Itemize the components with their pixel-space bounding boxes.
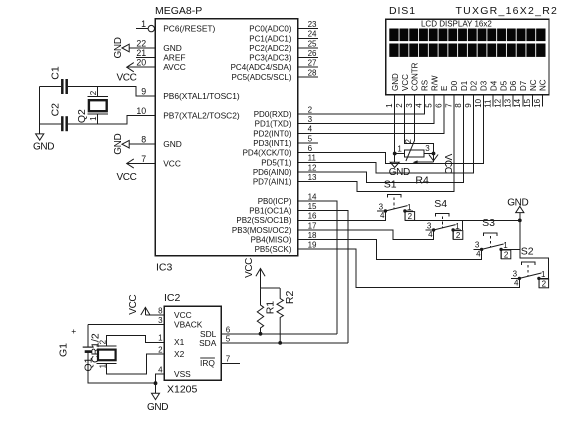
svg-text:3: 3 <box>379 202 384 211</box>
wire PB2 pin16 to S1 pin 4 <box>298 211 386 220</box>
svg-text:25: 25 <box>308 39 317 48</box>
svg-text:16: 16 <box>308 212 317 221</box>
svg-text:27: 27 <box>308 59 317 68</box>
svg-text:PD2(INT0): PD2(INT0) <box>253 129 292 138</box>
wire Q1 top to IC2 X1 <box>107 336 165 346</box>
svg-text:14: 14 <box>513 98 522 107</box>
IC3 right pin numbers <box>308 20 317 250</box>
resistor R1 <box>257 288 276 334</box>
svg-text:PC5(ADC5/SCL): PC5(ADC5/SCL) <box>231 73 291 82</box>
svg-text:D4: D4 <box>489 80 498 91</box>
svg-text:3: 3 <box>475 241 480 250</box>
svg-text:PD1(TXD): PD1(TXD) <box>255 120 292 129</box>
IC3 pin 1 PC6(/RESET) <box>136 19 215 34</box>
svg-text:1: 1 <box>141 19 146 29</box>
svg-text:9: 9 <box>464 103 473 108</box>
svg-text:NC: NC <box>529 79 538 91</box>
wire PB4 pin18 to S3 pin 4 <box>298 240 482 260</box>
wire PD4 pin6 to LCD D3 <box>298 95 484 164</box>
svg-text:PC3(ADC3): PC3(ADC3) <box>249 54 292 63</box>
svg-text:15: 15 <box>308 202 317 211</box>
svg-text:6: 6 <box>308 144 313 153</box>
svg-text:2: 2 <box>404 139 413 144</box>
svg-text:12: 12 <box>308 163 317 172</box>
svg-text:3: 3 <box>158 316 163 325</box>
svg-text:AVCC: AVCC <box>163 62 186 72</box>
svg-text:1: 1 <box>385 103 394 108</box>
svg-text:VBACK: VBACK <box>174 320 203 330</box>
wire SDA net IC2 pin5 to PB1 <box>221 342 347 344</box>
svg-text:SDA: SDA <box>199 338 217 348</box>
switch S1 <box>377 179 415 221</box>
svg-text:11: 11 <box>308 154 317 163</box>
svg-text:VCC: VCC <box>401 74 410 91</box>
svg-text:11: 11 <box>484 99 493 108</box>
wire GND rail to S2 pin1 <box>520 213 549 279</box>
IC2 pin numbers <box>158 306 231 374</box>
svg-text:LCD DISPLAY 16x2: LCD DISPLAY 16x2 <box>421 19 492 28</box>
svg-text:C2: C2 <box>49 103 61 117</box>
junction R4.3/VCC/LCD2 <box>432 152 436 156</box>
svg-text:13: 13 <box>503 98 512 107</box>
svg-text:4: 4 <box>308 125 313 134</box>
VCC supply arrow at IC2 pin 8 <box>128 295 150 315</box>
wire PD7 pin13 to LCD D0 <box>298 95 454 192</box>
wire R1/R2 top bridge <box>261 287 281 289</box>
IC3 MEGA8-P body <box>155 5 298 274</box>
ground symbol at IC3 pin 22 <box>113 37 129 58</box>
IC3 pin 7 VCC <box>127 154 181 169</box>
svg-text:PB5(SCK): PB5(SCK) <box>255 245 292 254</box>
svg-text:VSS: VSS <box>174 369 191 379</box>
svg-text:IC3: IC3 <box>156 262 173 274</box>
svg-text:20: 20 <box>136 58 146 68</box>
svg-text:26: 26 <box>308 49 317 58</box>
wire PB3 pin17 to S4 pin 4 <box>298 230 434 240</box>
ground symbol above switch rail <box>507 198 528 213</box>
svg-text:19: 19 <box>308 241 317 250</box>
ground symbol at IC3 pin 8 <box>113 133 129 154</box>
svg-text:CR1/2: CR1/2 <box>90 333 102 363</box>
svg-text:16: 16 <box>533 98 542 107</box>
wire PB1 pin15 to SDA <box>298 211 348 343</box>
svg-text:PC2(ADC2): PC2(ADC2) <box>249 44 292 53</box>
svg-text:18: 18 <box>308 231 317 240</box>
svg-text:PB6(XTAL1/TOSC1): PB6(XTAL1/TOSC1) <box>163 91 240 101</box>
IC3 pin 20 AVCC <box>127 58 186 73</box>
junction GND rail / switch wire <box>518 219 522 223</box>
svg-text:S4: S4 <box>434 198 447 210</box>
svg-text:2: 2 <box>308 105 313 114</box>
svg-text:VCC: VCC <box>163 159 181 169</box>
svg-text:8: 8 <box>141 135 146 145</box>
svg-text:PB1(OC1A): PB1(OC1A) <box>249 207 292 216</box>
IC2 pin 7 IRQ stub (unconnected) <box>221 362 240 364</box>
ground symbol below IC2 <box>147 393 168 413</box>
IC3 pin 9 PB6 <box>141 87 240 102</box>
svg-text:2: 2 <box>408 212 413 221</box>
svg-text:VCC: VCC <box>117 72 137 83</box>
svg-text:14: 14 <box>308 192 317 201</box>
svg-text:1: 1 <box>455 222 460 231</box>
svg-text:2: 2 <box>98 339 107 344</box>
trimmer R4 <box>395 139 434 187</box>
svg-text:VCC: VCC <box>128 295 139 315</box>
svg-text:7: 7 <box>141 154 146 164</box>
wire PB5 pin19 to S2 pin 4 <box>298 249 520 287</box>
IC2 X1205 body <box>164 292 221 396</box>
svg-text:5: 5 <box>308 134 313 143</box>
LCD display DIS1 TUXGR_16X2_R2 <box>386 5 559 95</box>
svg-text:X2: X2 <box>174 349 185 359</box>
svg-text:3: 3 <box>405 103 414 108</box>
svg-text:4: 4 <box>514 278 519 287</box>
svg-text:GND: GND <box>113 133 124 154</box>
svg-text:CONTR: CONTR <box>411 62 420 91</box>
svg-text:3: 3 <box>308 115 313 124</box>
svg-text:1: 1 <box>158 334 163 343</box>
svg-text:S1: S1 <box>384 179 397 191</box>
wire S3 pin1 to GND rail <box>501 248 520 250</box>
svg-text:2: 2 <box>395 103 404 108</box>
svg-text:GND: GND <box>391 73 400 91</box>
wire Q1 bottom to IC2 X2 <box>107 354 165 374</box>
svg-text:9: 9 <box>141 87 146 97</box>
svg-text:GND: GND <box>147 402 168 413</box>
IC3 pin 10 PB7 <box>136 106 239 121</box>
svg-text:4: 4 <box>158 365 163 374</box>
wire battery to IC2 VBACK pin 3 <box>88 324 164 326</box>
LCD pin stubs 1-16 <box>395 95 543 115</box>
switch S4 <box>425 198 463 240</box>
svg-text:23: 23 <box>308 20 317 29</box>
svg-text:C1: C1 <box>49 66 61 80</box>
IC2 pin 8 VCC wire <box>145 314 164 316</box>
svg-text:13: 13 <box>308 173 317 182</box>
junction R1 / SDL <box>259 332 263 336</box>
svg-text:10: 10 <box>136 106 146 116</box>
wire SDL net IC2 pin6 to PB0 <box>221 333 336 335</box>
svg-text:TUXGR_16X2_R2: TUXGR_16X2_R2 <box>456 5 559 17</box>
VCC supply arrow at IC3 pin 7 <box>117 159 137 183</box>
wire LCD pin3 CONTR down to R4 wiper <box>413 95 415 141</box>
wire PD6 pin12 to LCD D1 <box>298 95 464 183</box>
svg-text:VCC: VCC <box>174 310 192 320</box>
svg-text:X1205: X1205 <box>167 384 198 396</box>
IC2 pin names <box>174 310 217 379</box>
junction battery minus / VSS ground line <box>154 381 158 385</box>
svg-text:GND: GND <box>163 43 182 53</box>
svg-text:7: 7 <box>226 355 231 364</box>
VCC supply arrow below R4 pin 3 <box>429 154 453 174</box>
svg-text:PC4(ADC4/SDA): PC4(ADC4/SDA) <box>231 63 292 72</box>
svg-text:1: 1 <box>541 270 546 279</box>
svg-text:1: 1 <box>407 203 412 212</box>
svg-text:PB4(MISO): PB4(MISO) <box>251 236 292 245</box>
svg-text:GND: GND <box>33 141 54 152</box>
svg-text:D1: D1 <box>460 80 469 91</box>
battery G1 <box>57 325 155 384</box>
wire PB0 pin14 to SDL <box>298 201 337 334</box>
svg-text:3: 3 <box>427 221 432 230</box>
svg-text:1: 1 <box>89 116 98 121</box>
IC3 pin 22 GND <box>129 38 182 53</box>
svg-text:4: 4 <box>380 211 385 220</box>
LCD character blocks row 1 <box>389 29 545 42</box>
svg-text:D0: D0 <box>450 80 459 91</box>
svg-text:8: 8 <box>454 103 463 108</box>
svg-text:24: 24 <box>308 30 317 39</box>
junction LCD1/R4.1/GND <box>393 152 397 156</box>
svg-text:PC1(ADC1): PC1(ADC1) <box>249 34 292 43</box>
svg-text:PC0(ADC0): PC0(ADC0) <box>249 25 292 34</box>
svg-text:PD4(XCK/T0): PD4(XCK/T0) <box>243 149 292 158</box>
VCC supply arrow at IC3 pin 20 <box>117 63 137 84</box>
VCC supply arrow above R1 <box>244 258 265 288</box>
svg-text:5: 5 <box>425 103 434 108</box>
svg-text:DIS1: DIS1 <box>389 5 416 17</box>
LCD character blocks row 2 <box>389 29 545 57</box>
svg-text:GND: GND <box>507 198 528 209</box>
svg-text:2: 2 <box>89 90 98 95</box>
wire LCD pin1 GND down to junction <box>394 95 396 162</box>
IC3 pin 21 AREF <box>136 48 185 63</box>
svg-text:NC: NC <box>539 79 548 91</box>
crystal Q2 <box>76 86 108 123</box>
svg-text:D7: D7 <box>519 80 528 91</box>
svg-text:2: 2 <box>456 231 461 240</box>
svg-text:PB7(XTAL2/TOSC2): PB7(XTAL2/TOSC2) <box>163 110 240 120</box>
wire PD2 pin4 to LCD E <box>298 95 444 134</box>
svg-text:X1: X1 <box>174 337 185 347</box>
svg-text:VCC: VCC <box>117 172 137 183</box>
ground symbol below R4 <box>389 162 410 178</box>
wire GND rail left of C1/C2 <box>40 86 61 133</box>
crystal Q1 <box>82 333 116 371</box>
svg-text:4: 4 <box>428 230 433 239</box>
svg-text:R/W: R/W <box>430 75 439 91</box>
svg-text:MEGA8-P: MEGA8-P <box>155 5 202 17</box>
svg-text:+: + <box>71 326 76 336</box>
svg-text:22: 22 <box>136 38 146 48</box>
IC2 pin 4 VSS wire to ground <box>156 374 165 393</box>
svg-text:AREF: AREF <box>163 53 185 63</box>
switch S2 <box>511 245 549 288</box>
svg-text:S2: S2 <box>521 245 534 257</box>
svg-text:17: 17 <box>308 221 317 230</box>
svg-text:E: E <box>440 86 449 91</box>
wire PD0 pin2 to LCD RS <box>298 95 424 114</box>
wire XTAL1 net: C1 right plate to IC3 pin 9 <box>68 86 155 96</box>
svg-text:21: 21 <box>136 48 146 58</box>
svg-text:GND: GND <box>163 139 182 149</box>
svg-text:1: 1 <box>503 241 508 250</box>
svg-text:G1: G1 <box>57 343 69 357</box>
wire PD5 pin11 to LCD D2 <box>298 95 474 173</box>
svg-text:7: 7 <box>444 103 453 108</box>
wire PD1 pin3 to LCD R/W <box>298 95 434 124</box>
svg-text:Q2: Q2 <box>76 109 88 123</box>
svg-text:8: 8 <box>158 306 163 315</box>
svg-text:2: 2 <box>158 345 163 354</box>
junction R2 / SDA <box>278 341 282 345</box>
svg-text:28: 28 <box>308 68 317 77</box>
svg-text:S3: S3 <box>482 217 495 229</box>
svg-text:PB0(ICP): PB0(ICP) <box>258 197 292 206</box>
capacitor C2 <box>49 103 66 131</box>
svg-text:D5: D5 <box>499 80 508 91</box>
svg-text:PB2(SS/OC1B): PB2(SS/OC1B) <box>236 216 291 225</box>
resistor R2 <box>277 288 296 343</box>
svg-text:4: 4 <box>415 103 424 108</box>
IC3 right pin stubs 23-28 (unconnected) <box>298 29 318 143</box>
LCD pin names (rotated) <box>391 62 548 91</box>
svg-text:6: 6 <box>434 103 443 108</box>
LCD pin numbers (rotated) <box>385 98 542 107</box>
svg-text:10: 10 <box>474 98 483 107</box>
wire S4 pin1 riser to GND wire <box>462 220 464 230</box>
svg-text:5: 5 <box>226 335 231 344</box>
svg-text:D6: D6 <box>509 80 518 91</box>
svg-text:12: 12 <box>494 98 503 107</box>
svg-text:D2: D2 <box>470 80 479 91</box>
IC3 right pin names <box>231 25 292 255</box>
svg-text:6: 6 <box>226 325 231 334</box>
ground symbol bottom-left <box>33 134 54 152</box>
svg-text:R1: R1 <box>264 301 276 315</box>
svg-text:PD5(T1): PD5(T1) <box>261 158 292 167</box>
svg-text:IC2: IC2 <box>164 292 181 304</box>
wire S1 pin2 to GND rail <box>405 219 520 221</box>
svg-text:PC6(/RESET): PC6(/RESET) <box>163 24 215 34</box>
IC3 pin 8 GND <box>129 135 182 150</box>
switch S3 <box>473 217 511 260</box>
svg-text:PD0(RXD): PD0(RXD) <box>254 110 292 119</box>
svg-text:3: 3 <box>425 144 430 153</box>
svg-text:R4: R4 <box>415 175 429 187</box>
capacitor C1 <box>49 66 66 94</box>
svg-text:VCC: VCC <box>244 258 255 278</box>
svg-text:4: 4 <box>476 249 481 258</box>
svg-text:PD7(AIN1): PD7(AIN1) <box>253 178 292 187</box>
svg-text:GND: GND <box>113 37 124 58</box>
svg-text:2: 2 <box>504 250 509 259</box>
wire LCD pin2 VCC to R4 pin3 node <box>405 95 434 154</box>
svg-text:PB3(MOSI/OC2): PB3(MOSI/OC2) <box>232 226 292 235</box>
svg-text:IRQ: IRQ <box>200 358 215 368</box>
svg-text:RS: RS <box>420 80 429 91</box>
svg-text:PD3(INT1): PD3(INT1) <box>253 139 292 148</box>
svg-text:D3: D3 <box>480 80 489 91</box>
svg-text:R2: R2 <box>284 291 296 305</box>
svg-text:15: 15 <box>523 98 532 107</box>
svg-text:2: 2 <box>542 279 547 288</box>
svg-text:3: 3 <box>513 270 518 279</box>
wire XTAL2 net: C2 right plate to IC3 pin 10 <box>68 115 155 123</box>
svg-text:PD6(AIN0): PD6(AIN0) <box>253 168 292 177</box>
svg-text:1: 1 <box>98 363 107 368</box>
svg-text:1: 1 <box>397 144 402 153</box>
